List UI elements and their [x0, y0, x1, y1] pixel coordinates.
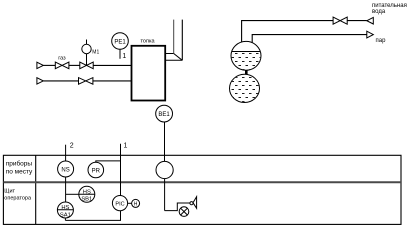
chimney left wall — [173, 20, 175, 54]
instrument PR — [88, 162, 104, 178]
wire BE1 stem down — [164, 122, 166, 161]
svg-text:приборы: приборы — [6, 160, 33, 168]
wire gas line 2 segment a — [43, 80, 78, 82]
svg-text:SB1: SB1 — [81, 197, 92, 203]
svg-text:газ: газ — [58, 56, 66, 62]
wire gas line 2 segment b — [93, 80, 138, 82]
gas inlet arrow 1 — [37, 62, 43, 68]
water level line — [232, 51, 261, 53]
wire signal line 2 — [65, 145, 67, 162]
svg-text:вода: вода — [372, 9, 386, 15]
lamp signal — [179, 207, 189, 217]
switch HS SB1 — [79, 186, 95, 202]
steam pipe elbow — [252, 35, 367, 43]
wire PE1 stem — [119, 49, 121, 58]
svg-text:топка: топка — [140, 39, 155, 45]
feed water source arrow — [367, 17, 374, 24]
svg-text:пар: пар — [376, 38, 387, 44]
gas inlet arrow 2 — [37, 78, 43, 84]
svg-text:1: 1 — [122, 53, 126, 60]
svg-text:питательная: питательная — [372, 3, 407, 9]
table column divider — [35, 155, 37, 224]
wire gas line 1 segment b — [69, 64, 80, 66]
instrument PE1 — [112, 33, 129, 50]
table row divider — [3, 181, 401, 183]
horn alarm — [190, 202, 193, 205]
svg-text:SA1: SA1 — [60, 212, 71, 218]
boiler lower drum — [230, 74, 260, 102]
controller PIC — [112, 196, 127, 211]
svg-text:PE1: PE1 — [114, 39, 126, 45]
valve feed water — [333, 17, 347, 24]
wire BE1 signal down — [164, 179, 166, 211]
switch HS SA1 — [57, 202, 73, 218]
drum connector — [245, 70, 248, 75]
wire bottom connector — [65, 211, 120, 221]
svg-text:2: 2 — [70, 143, 74, 150]
boiler upper drum — [231, 41, 261, 70]
svg-text:NS: NS — [61, 167, 69, 173]
chimney right wall — [181, 20, 183, 61]
svg-text:Щит: Щит — [4, 189, 15, 195]
wire valve stem — [86, 54, 88, 66]
wire actuator top stem — [86, 40, 88, 45]
wire flue duct bottom — [165, 59, 182, 61]
table frame — [3, 155, 401, 224]
steam outlet arrow — [367, 31, 374, 38]
instrument NS — [58, 161, 74, 177]
wire NS to SA1 — [65, 177, 67, 202]
valve gas shutoff 1 — [55, 62, 69, 69]
svg-text:PR: PR — [92, 168, 101, 174]
lamp H — [132, 199, 140, 207]
svg-text:HS: HS — [61, 205, 69, 211]
instrument circle (unlabelled) — [156, 161, 173, 178]
wire flue duct top — [165, 53, 174, 55]
wire gas line 1 segment a — [43, 64, 55, 66]
wire gas line 1 segment c — [93, 64, 138, 66]
wire PR link — [96, 161, 121, 163]
svg-text:H: H — [134, 202, 138, 208]
svg-text:по месту: по месту — [6, 169, 33, 176]
valve control M1 body — [80, 62, 93, 69]
svg-text:HS: HS — [83, 189, 91, 195]
svg-text:PIC: PIC — [115, 201, 124, 207]
feed water pipe elbow — [242, 21, 334, 43]
wire feed water segment b — [347, 20, 367, 22]
wire flue diagonal — [174, 54, 183, 61]
svg-text:BE1: BE1 — [158, 112, 170, 118]
wire signal line 1 — [120, 144, 122, 196]
furnace box топка — [132, 46, 166, 101]
svg-text:М1: М1 — [92, 50, 99, 56]
svg-text:оператора: оператора — [4, 195, 32, 201]
wire SA1 bottom stem — [64, 218, 66, 220]
wire to alarm — [165, 203, 190, 211]
valve gas shutoff 2 — [79, 78, 93, 85]
svg-text:1: 1 — [124, 143, 128, 150]
instrument BE1 — [156, 105, 173, 122]
wire branch to SB1 — [66, 193, 79, 195]
actuator M1 circle — [82, 44, 91, 53]
wire PIC to H — [128, 202, 132, 204]
